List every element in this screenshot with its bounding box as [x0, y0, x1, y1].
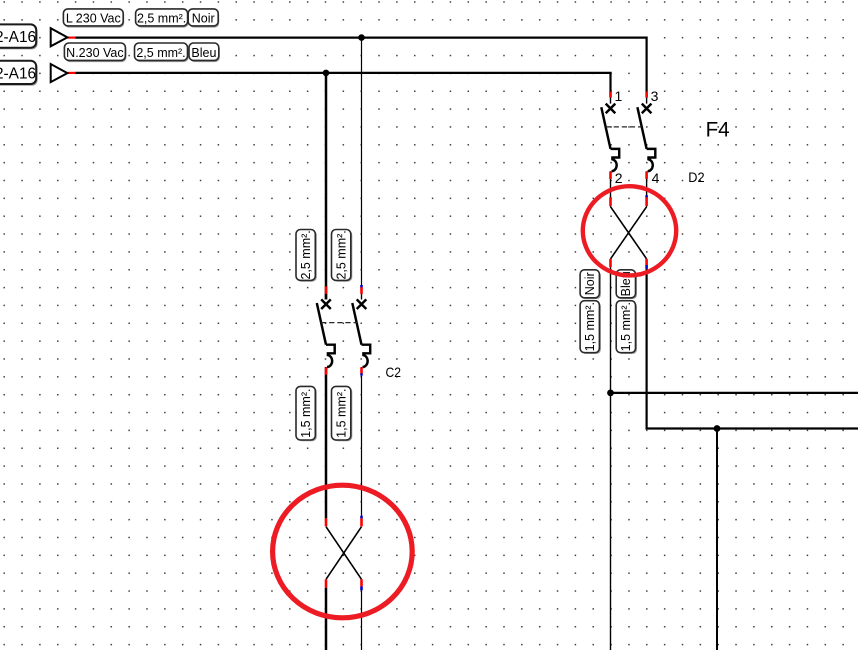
svg-text:Bleu: Bleu [191, 46, 216, 60]
terminal tick D2 top-left [609, 197, 612, 206]
terminal tick C2 pole2 top blue tip [360, 285, 363, 287]
rotated label Bleu below D2 right [616, 270, 637, 299]
svg-text:3: 3 [651, 88, 659, 104]
svg-text:1,5 mm².: 1,5 mm². [299, 389, 313, 438]
rotated label 1,5 mm2 below C2 right pole [332, 386, 353, 441]
terminal tick lamp crossing bottom-right [360, 579, 363, 586]
node junction on N at x=326 [323, 70, 330, 77]
terminal tick lamp crossing top-left [325, 518, 328, 526]
svg-text:Noir: Noir [192, 12, 215, 26]
wire N red start segment [67, 72, 75, 74]
svg-text:2-A16: 2-A16 [0, 29, 36, 46]
svg-text:2: 2 [615, 170, 623, 186]
red annotation circle around D2 crossing [583, 186, 676, 275]
svg-text:1,5 mm².: 1,5 mm². [583, 302, 597, 351]
wire F4 pin4 down to D2 crossing [646, 179, 648, 207]
svg-text:Noir: Noir [583, 272, 597, 295]
svg-text:2,5 mm².: 2,5 mm². [136, 46, 185, 60]
wire from N junction down to C2 left pole (thick) [325, 73, 328, 300]
svg-text:D2: D2 [688, 169, 705, 185]
wire C2 left pole down to lamp crossing (thick) [325, 375, 328, 519]
rotated label 1,5 mm2 below C2 left pole [296, 386, 317, 441]
terminal tick C2 pole2 bottom [360, 367, 363, 373]
terminal tick C2 pole2 top [360, 287, 363, 294]
terminal tick lamp crossing bottom-right blue tip [360, 586, 363, 590]
svg-text:C2: C2 [386, 365, 402, 380]
folio reference box 2-A16 (row 2) [0, 61, 38, 86]
wire below lamp crossing right (thin) to bottom edge [361, 590, 363, 650]
svg-text:N.230 Vac: N.230 Vac [66, 46, 123, 60]
terminal tick D2 top-right blue tip [645, 195, 648, 197]
breaker C2 linkage dashed [321, 322, 357, 324]
D2 crossing diagonal right-to-left [611, 207, 647, 259]
terminal tick F4 pin 2 [609, 172, 612, 180]
terminal tick C2 pole1 top [325, 286, 328, 294]
source arrow flag row 2 [51, 64, 68, 82]
rotated label 1,5 mm2 below D2 right [616, 301, 637, 354]
wire from L junction down to C2 right pole [361, 38, 363, 300]
svg-text:2,5 mm².: 2,5 mm². [335, 230, 349, 279]
label 2,5 mm2 row 1 [136, 9, 189, 28]
terminal tick lamp crossing bottom-left [325, 579, 328, 587]
wire crossing diagonal right-to-left [326, 527, 362, 580]
breaker F4 linkage dashed [606, 126, 642, 128]
svg-text:F4: F4 [706, 118, 730, 142]
wire N conductor horizontal [75, 73, 610, 98]
rotated label 1,5 mm2 below D2 left [580, 301, 601, 354]
svg-text:1: 1 [615, 88, 623, 104]
svg-text:1,5 mm².: 1,5 mm². [619, 302, 633, 351]
red annotation circle around lower lamp crossing [273, 485, 413, 618]
node junction at (610.5,392.9) [607, 390, 614, 397]
breaker F4 pole 1 (left) [601, 98, 619, 179]
wire horizontal from junction to right edge y=392.9 [611, 392, 858, 394]
svg-text:2,5 mm².: 2,5 mm². [137, 12, 186, 26]
rotated label Noir below D2 left [580, 270, 601, 299]
terminal tick F4 pin 4 [645, 172, 648, 180]
wire C2 right pole down to lamp crossing (thin) [361, 376, 363, 516]
breaker F4 pole 2 (right) [637, 98, 655, 179]
wire from junction at x=717 down to bottom edge [716, 429, 718, 650]
terminal tick F4 pin 1 [609, 92, 612, 98]
source arrow flag row 1 [51, 28, 68, 46]
node junction on L at x=361.5 [358, 34, 365, 41]
label N.230 Vac [64, 43, 126, 62]
wire below D2 left (thin) down to junction [610, 267, 612, 650]
D2 crossing diagonal left-to-right [611, 207, 647, 259]
terminal tick F4 pin 3 [645, 92, 648, 98]
svg-text:2,5 mm².: 2,5 mm². [299, 230, 313, 279]
wire below D2 right (thick) turning right at y=428.5 [647, 269, 858, 429]
svg-text:L 230 Vac: L 230 Vac [66, 12, 121, 26]
folio reference box 2-A16 (row 1) [0, 24, 38, 49]
terminal tick D2 bottom-left [609, 259, 612, 267]
svg-text:4: 4 [652, 170, 660, 186]
svg-text:1,5 mm².: 1,5 mm². [335, 389, 349, 438]
rotated label 2,5 mm2 left of C2 right pole [332, 230, 353, 282]
wire crossing diagonal left-to-right [326, 527, 362, 580]
label 2,5 mm2 row 2 [135, 43, 189, 62]
terminal tick lamp crossing top-right blue tip [360, 516, 363, 519]
wire L red start segment [67, 36, 75, 38]
label Noir row 1 [188, 9, 219, 28]
terminal tick D2 bottom-right [645, 259, 648, 265]
svg-text:2-A16: 2-A16 [0, 66, 36, 83]
terminal tick C2 pole1 bottom [325, 367, 328, 375]
terminal tick D2 top-right [645, 197, 648, 206]
wire below lamp crossing left (thick) to bottom edge [325, 588, 328, 650]
wire L conductor horizontal [75, 38, 646, 98]
rotated label 2,5 mm2 left of C2 left pole [296, 230, 317, 282]
node junction at (717,428.5) [714, 425, 721, 432]
wire F4 pin2 down to D2 crossing [610, 179, 612, 207]
breaker C2 pole 1 (left) [317, 293, 335, 374]
breaker C2 pole 2 (right) [352, 293, 370, 374]
label L 230 Vac [63, 9, 124, 28]
label Bleu row 2 [189, 43, 220, 62]
terminal tick D2 bottom-right blue tip [645, 265, 648, 269]
terminal tick lamp crossing top-right [360, 518, 363, 526]
terminal tick C2 pole2 bottom blue tip [360, 373, 363, 375]
